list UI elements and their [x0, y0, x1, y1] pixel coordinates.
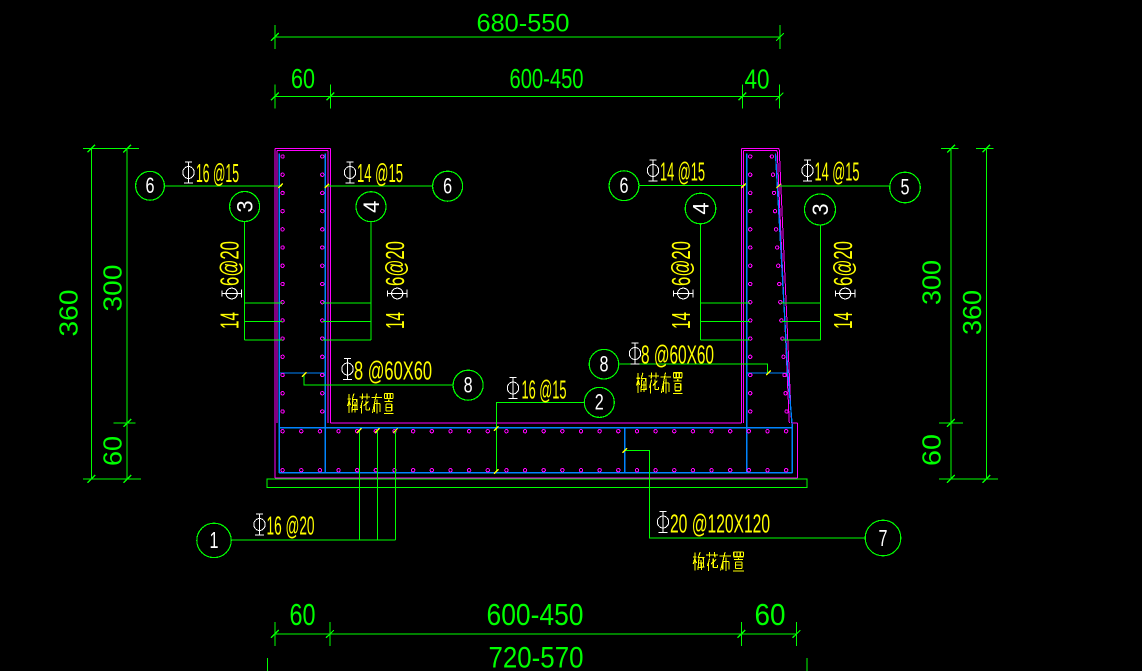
svg-text:8 @60X60: 8 @60X60 — [641, 340, 714, 370]
callout circle 7 — [865, 520, 901, 556]
callout circle 3 right (rotated numeral) — [805, 194, 836, 225]
svg-text:6: 6 — [620, 173, 629, 198]
rebar dots slab bottom row — [281, 469, 284, 472]
leader bar 6 left wall outer — [164, 185, 282, 187]
rebar label phi14@15 right a — [647, 160, 658, 181]
svg-text:600-450: 600-450 — [487, 597, 584, 632]
callout circle 4 right (rotated numeral) — [685, 193, 716, 224]
rebar label phi8@60X60 right — [629, 343, 640, 364]
rebar left wall horizontal connector — [279, 372, 325, 374]
concrete channel floor line — [330, 422, 741, 424]
rebar dots right wall outer sloped column — [770, 155, 773, 158]
leader circle 2 (slab top mesh) — [496, 402, 584, 472]
svg-text:60: 60 — [291, 63, 315, 94]
concrete left wall outline (double line) — [274, 149, 276, 478]
callout circle 2 — [584, 387, 614, 417]
svg-text:6@20: 6@20 — [380, 241, 410, 286]
svg-text:2: 2 — [595, 390, 604, 415]
leader circle 4 left: vertical + 3 ticks — [370, 222, 372, 340]
svg-text:6: 6 — [146, 173, 155, 198]
rebar label phi8@60X60 left — [342, 359, 353, 380]
rebar dots right wall inner column — [749, 155, 752, 158]
callout circle 6 (left outer) — [136, 171, 165, 200]
svg-text:16 @20: 16 @20 — [267, 511, 315, 541]
rebar dots left wall inner column — [321, 155, 324, 158]
rebar label phi16@15 slab — [507, 378, 518, 399]
svg-text:60: 60 — [917, 434, 947, 466]
rebar label phi16@20 — [254, 514, 265, 535]
svg-text:6@20: 6@20 — [666, 241, 696, 286]
text label meihua right (mei-hua-bu-zhi plum-blossom-layout, drawn strokes) — [636, 372, 682, 393]
callout circle 8 right — [589, 349, 619, 379]
rebar dots left wall outer column — [281, 155, 284, 158]
leader circle 8 left (wall mesh) — [304, 374, 453, 385]
svg-text:60: 60 — [755, 597, 786, 632]
rebar slab top horizontal — [279, 427, 792, 429]
svg-text:6@20: 6@20 — [828, 241, 858, 286]
svg-text:40: 40 — [745, 64, 770, 95]
leader circle 1 (slab bottom bars, 3 ticks) — [231, 539, 396, 541]
svg-text:8: 8 — [600, 351, 609, 376]
stirrup count label 14 phi6@20 right b (vertical) — [828, 241, 858, 329]
rebar right wall outer sloped — [776, 154, 793, 473]
lean concrete base (green rectangle) — [267, 479, 807, 488]
leader bar 6b left wall inner — [325, 185, 433, 187]
svg-text:300: 300 — [98, 265, 128, 312]
rebar left wall outer vertical — [278, 154, 280, 473]
dimension row 60 / 600-450 / 60 bottom — [275, 633, 797, 635]
callout circle 6 (right inner) — [609, 171, 639, 201]
leader bar 6 right wall inner — [639, 185, 746, 187]
svg-text:720-570: 720-570 — [489, 642, 584, 671]
rebar dots slab top row — [281, 430, 284, 433]
callout circle 5 (right outer) — [890, 172, 921, 203]
svg-text:600-450: 600-450 — [510, 63, 584, 94]
svg-text:4: 4 — [359, 201, 384, 213]
svg-text:14: 14 — [380, 312, 410, 329]
stirrup count label 14 phi6@20 left b (vertical) — [380, 241, 410, 329]
stirrup count label 14 phi6@20 left a (vertical) — [215, 241, 245, 329]
dimension 680-550 top overall — [275, 36, 780, 38]
svg-text:60: 60 — [290, 597, 316, 632]
svg-text:8 @60X60: 8 @60X60 — [354, 356, 432, 386]
svg-text:1: 1 — [210, 527, 219, 553]
svg-text:8: 8 — [464, 372, 473, 397]
rebar right wall horizontal connector — [747, 372, 788, 374]
svg-text:16 @15: 16 @15 — [196, 158, 239, 188]
text label meihua bottom (mei-hua-bu-zhi plum-blossom-layout, drawn strokes) — [693, 552, 744, 571]
callout circle 3 left (rotated numeral) — [230, 192, 260, 222]
rebar label phi14@15 right b — [802, 160, 813, 181]
concrete right wall outline (tapered, double line) — [741, 149, 743, 424]
svg-text:16 @15: 16 @15 — [522, 375, 567, 405]
leader circle 3 left: vertical + 3 ticks — [244, 222, 246, 340]
svg-text:14: 14 — [666, 312, 696, 329]
leader circle 7 (slab stirrups) — [625, 451, 865, 538]
dimension 360 right — [985, 149, 987, 479]
leader circle 8 right (wall mesh) — [620, 364, 768, 372]
svg-text:7: 7 — [879, 525, 888, 551]
dimension 300 / 60 right — [950, 149, 952, 479]
dimension 360 left — [90, 149, 92, 479]
rebar right wall inner vertical — [746, 154, 748, 473]
svg-text:20 @120X120: 20 @120X120 — [670, 509, 770, 539]
svg-text:360: 360 — [54, 290, 84, 337]
svg-text:360: 360 — [957, 290, 987, 335]
rebar slab vertical divider — [624, 428, 626, 473]
svg-text:680-550: 680-550 — [477, 10, 570, 38]
svg-text:6@20: 6@20 — [215, 241, 245, 286]
concrete slab bottom — [275, 477, 798, 479]
svg-text:5: 5 — [901, 175, 910, 200]
svg-text:3: 3 — [808, 203, 833, 215]
svg-text:4: 4 — [689, 202, 714, 214]
dimension 300 / 60 left — [126, 149, 128, 479]
rebar label phi16@15 left — [183, 162, 194, 183]
rebar label phi14@15 left — [344, 162, 355, 183]
svg-text:14 @15: 14 @15 — [660, 157, 705, 187]
svg-text:3: 3 — [233, 200, 258, 212]
rebar label phi20@120X120 — [657, 512, 668, 533]
dimension row 60 / 600-450 / 40 top — [275, 96, 780, 98]
rebar left wall inner vertical — [324, 154, 326, 473]
stirrup count label 14 phi6@20 right a (vertical) — [666, 241, 696, 329]
callout circle 8 left — [453, 370, 483, 400]
rebar slab bottom horizontal — [279, 472, 792, 474]
svg-text:14: 14 — [215, 312, 245, 329]
concrete slab right step and edge — [792, 422, 798, 424]
svg-text:14 @15: 14 @15 — [357, 158, 403, 188]
callout circle 6 (left inner) — [433, 171, 463, 201]
svg-text:14: 14 — [828, 312, 858, 329]
svg-text:300: 300 — [917, 260, 947, 305]
text label meihua left (mei-hua-bu-zhi plum-blossom-layout, drawn strokes) — [347, 393, 393, 413]
svg-text:6: 6 — [443, 173, 452, 198]
callout circle 1 — [197, 523, 231, 557]
leader circle 4 right: vertical + 3 ticks — [699, 224, 701, 340]
leader bar 5 right wall outer — [778, 185, 890, 187]
svg-text:60: 60 — [98, 436, 128, 466]
svg-text:14 @15: 14 @15 — [815, 157, 860, 187]
leader circle 3 right: vertical + 3 ticks — [820, 225, 822, 340]
callout circle 4 left (rotated numeral) — [356, 192, 386, 222]
